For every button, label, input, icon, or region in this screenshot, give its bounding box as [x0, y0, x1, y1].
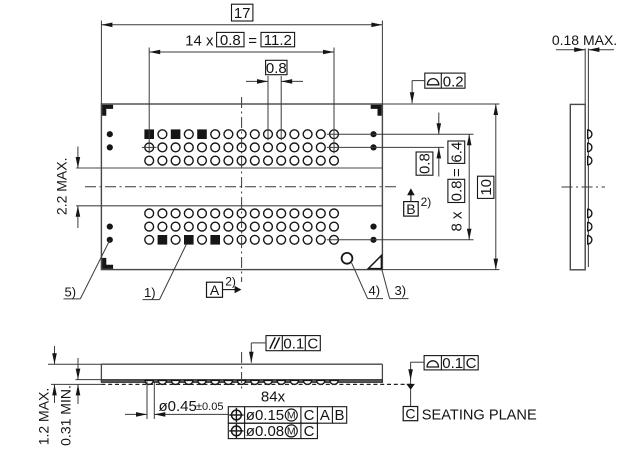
svg-text:SEATING PLANE: SEATING PLANE [422, 407, 537, 423]
ball row 3 [145, 156, 339, 165]
extension line top surface left [48, 363, 101, 365]
position tolerance table [228, 407, 346, 439]
svg-text:C: C [405, 405, 415, 421]
dimension 1.2 MAX arrows [52, 346, 57, 403]
svg-text:±0.05: ±0.05 [196, 401, 223, 413]
svg-text:2): 2) [421, 195, 432, 209]
bottom view solder balls [145, 380, 338, 384]
extension line row9 to right [327, 239, 474, 241]
svg-text:2.2 MAX.: 2.2 MAX. [53, 158, 69, 216]
dimension 8x0.8=6.4: rotated label [448, 141, 466, 232]
svg-text:10: 10 [478, 179, 495, 196]
dimension 14x0.8=11.2: dimension line with arrows [149, 50, 334, 55]
svg-text:B: B [406, 201, 415, 217]
svg-text:ø0.15: ø0.15 [246, 407, 284, 424]
bottom view body outline [101, 364, 382, 383]
svg-text:ø0.45: ø0.45 [159, 398, 197, 415]
leader for profile FCF to seating plane [406, 362, 424, 406]
svg-text:C: C [304, 407, 315, 424]
dimension 10: extension lines [382, 104, 499, 270]
svg-text:3): 3) [395, 283, 407, 298]
extension line row2 to right [327, 146, 444, 148]
corner mark top-right [371, 105, 382, 116]
svg-text:0.8: 0.8 [417, 153, 434, 174]
svg-text:A: A [210, 282, 220, 298]
svg-text:8 x: 8 x [449, 211, 466, 232]
svg-text:=: = [248, 32, 257, 49]
table row 2 contents [229, 423, 314, 440]
svg-text:0.18 MAX.: 0.18 MAX. [552, 32, 617, 48]
inner horizontal line lower (2.2 max zone) [76, 205, 382, 207]
svg-text:1): 1) [144, 285, 156, 300]
svg-text:0.31 MIN.: 0.31 MIN. [57, 385, 73, 446]
svg-text:0.8: 0.8 [266, 60, 287, 77]
SEATING PLANE text [422, 407, 537, 423]
svg-text:1.2 MAX.: 1.2 MAX. [35, 388, 51, 446]
table row 1 contents [229, 407, 344, 424]
feature control frame parallelism 0.1 C [266, 335, 320, 352]
dimension 10: dimension line with arrows [494, 104, 499, 270]
note 5 label and leader [64, 240, 110, 299]
svg-text:C: C [307, 335, 318, 352]
side view substrate lines [585, 49, 588, 268]
dimension 0.31 MIN rotated text [57, 385, 73, 446]
svg-text:C: C [304, 423, 315, 440]
svg-text:C: C [466, 355, 477, 372]
leader for profile 0.2 [410, 81, 425, 104]
svg-text:B: B [334, 407, 344, 424]
datum A symbol [207, 282, 242, 298]
dimension 14x0.8=11.2: extension lines [149, 48, 334, 154]
svg-text:0.8: 0.8 [449, 180, 466, 201]
side view body rectangle [570, 104, 585, 269]
dimension 1.2 MAX rotated text [35, 388, 51, 446]
package body outline (top view) [101, 104, 382, 270]
ball row 7 [145, 209, 339, 218]
horizontal centerline [85, 186, 396, 188]
side view centerline [562, 186, 606, 188]
svg-text:M: M [287, 410, 296, 422]
svg-text:6.4: 6.4 [449, 142, 466, 163]
dimension 10: boxed value rotated [478, 176, 495, 198]
ball row 9 [145, 235, 339, 245]
svg-text:A: A [320, 407, 330, 424]
extension line row1 to right [327, 133, 474, 135]
dimension 0.8 (top pitch): extension lines [268, 76, 281, 140]
note 4 label and leader [352, 263, 383, 299]
svg-text:11.2: 11.2 [264, 32, 292, 49]
svg-text:=: = [449, 168, 466, 177]
corner mark top-left [102, 105, 113, 116]
note 2 superscript at A [225, 274, 236, 288]
bottom view substrate band [101, 380, 382, 383]
dimension 2.2 MAX: rotated text [53, 158, 69, 216]
dimension 0.8 (top pitch): boxed value [266, 60, 287, 77]
svg-text:0.1: 0.1 [442, 355, 463, 372]
svg-text:5): 5) [65, 284, 77, 299]
edge dots right [370, 131, 376, 243]
dimension 14x0.8=11.2: label [185, 32, 294, 49]
svg-text:17: 17 [234, 5, 251, 22]
note 2 superscript at B [421, 195, 432, 209]
note 3 label and leader [382, 270, 409, 299]
dimension 8x0.8=6.4: dimension line with arrows [467, 134, 472, 240]
side view solder ball bumps [588, 130, 592, 244]
leader for parallelism FCF [249, 343, 266, 363]
svg-text:14 x: 14 x [185, 32, 214, 49]
dimension 17: boxed value [232, 4, 253, 22]
dimension 0.8 (top pitch): arrows [246, 79, 303, 84]
edge dots left [107, 131, 113, 243]
svg-text:0.1: 0.1 [283, 335, 304, 352]
bottom view centerline [241, 352, 243, 391]
vertical centerline [241, 97, 243, 282]
feature control frame profile 0.2 [425, 73, 465, 90]
seating plane dashed line [51, 383, 411, 385]
extension line standoff left [76, 379, 102, 381]
corner mark bottom-left [102, 258, 113, 269]
ball row 8 [145, 222, 339, 231]
svg-text:4): 4) [369, 283, 381, 298]
dimension 0.8 (row pitch right): boxed value rotated [416, 152, 434, 175]
dimension 2.2 MAX: arrows [76, 147, 81, 229]
inner horizontal line upper (2.2 max zone) [76, 167, 382, 169]
count 84x text [261, 388, 286, 405]
dimension 0.8 (row pitch right): arrows [437, 113, 442, 177]
dimension ball diameter arrows [125, 412, 228, 417]
dimension 17: extension lines [101, 21, 382, 105]
datum B symbol [404, 188, 419, 217]
dimension ball diameter text [159, 398, 224, 415]
dimension ball diameter extension lines [147, 382, 154, 420]
svg-text:M: M [287, 426, 296, 438]
feature control frame profile 0.1 C [424, 355, 478, 372]
ball row 2 [145, 143, 339, 152]
note 1 label and leader [143, 244, 187, 300]
svg-text:84x: 84x [261, 388, 286, 405]
chamfer triangle mark bottom-right (note 3) [368, 256, 381, 269]
crosshair ticks on datum balls [142, 146, 157, 148]
svg-text:0.2: 0.2 [443, 73, 464, 90]
dimension 17: dimension line with arrows [101, 23, 382, 28]
svg-text:ø0.08: ø0.08 [246, 423, 284, 440]
ball row 1 [144, 129, 338, 139]
dimension 0.18 MAX arrows [556, 47, 614, 52]
svg-text:2): 2) [225, 274, 236, 288]
svg-text:0.8: 0.8 [220, 32, 241, 49]
dimension 0.31 MIN arrows [76, 358, 81, 404]
dimension 0.18 MAX text [552, 32, 617, 48]
datum C symbol [403, 405, 418, 421]
index circle mark (note 4) [342, 253, 353, 264]
